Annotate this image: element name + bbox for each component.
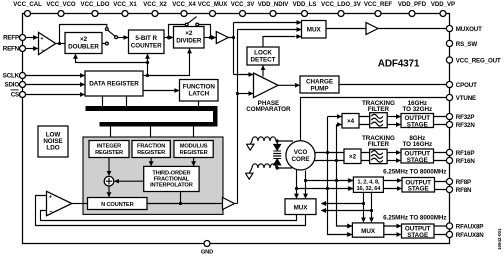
- node divider bypass split junction: [167, 36, 170, 39]
- svg-text:SDIO: SDIO: [4, 82, 19, 89]
- left pin CS (active low, overline): [11, 90, 26, 99]
- wire phase comparator to charge pump: [278, 84, 299, 86]
- oscillator VCO CORE: [286, 141, 315, 170]
- op-amp PHASE COMPARATOR: [254, 73, 279, 98]
- op-amp feedback buffer: [47, 191, 72, 215]
- filter block tracking filter row2: [370, 149, 388, 163]
- svg-text:−: −: [49, 209, 53, 215]
- node VCO lower output tap: [335, 159, 338, 162]
- charge pump block CHARGE PUMP: [300, 76, 339, 93]
- top power pin circles: [25, 11, 447, 17]
- doubler block x2 DOUBLER: [65, 33, 102, 54]
- wire buffer output to doubler: [56, 43, 65, 45]
- wire lock detect output to MUX input 3: [263, 37, 296, 48]
- regulator block LOW NOISE LDO: [38, 126, 68, 157]
- buffer triangle MUXOUT driver: [366, 23, 378, 35]
- amplifier block OUTPUT STAGE row2: [401, 149, 434, 164]
- bottom pin GND: [201, 241, 213, 256]
- svg-text:LATCH: LATCH: [188, 91, 209, 98]
- wire VTUNE pin to VCO core: [301, 98, 447, 142]
- svg-text:MODULUS: MODULUS: [180, 144, 208, 150]
- counter block 5-BIT R COUNTER: [129, 30, 165, 54]
- wire fraction register to interpolator: [150, 158, 152, 166]
- svg-text:VTUNE: VTUNE: [456, 95, 476, 102]
- buffer triangle N divider output: [223, 198, 235, 210]
- amplifier block OUTPUT STAGE row3: [402, 178, 435, 193]
- svg-text:REGISTER: REGISTER: [180, 150, 208, 156]
- node reference buffer output junction: [232, 36, 235, 39]
- node VCO upper output tap: [326, 151, 329, 154]
- svg-text:RFAUX8N: RFAUX8N: [456, 232, 485, 239]
- svg-text:DATA REGISTER: DATA REGISTER: [89, 81, 139, 88]
- wire modulus register to interpolator: [193, 158, 195, 166]
- svg-text:VCC_REG_OUT: VCC_REG_OUT: [456, 57, 501, 64]
- lock detect block LOCK DETECT: [247, 47, 279, 65]
- svg-text:TO 16GHz: TO 16GHz: [403, 141, 433, 148]
- divider block 1 2 4 8 16 32 64: [353, 177, 383, 192]
- summer node circle plus: [104, 176, 114, 186]
- svg-text:STAGE: STAGE: [408, 186, 429, 193]
- svg-text:×2: ×2: [349, 154, 357, 161]
- svg-text:SCLK: SCLK: [3, 73, 20, 80]
- wire divider bypass up and over: [169, 25, 186, 38]
- wire VCO net verticals feeding x4 and aux mux: [328, 117, 352, 235]
- wire to MUXOUT pin: [378, 28, 446, 30]
- wire VCO bottom pair to feedback mux: [297, 170, 306, 194]
- svg-text:CORE: CORE: [292, 156, 310, 163]
- right pin RFAUX8P: [446, 223, 483, 230]
- right pin VTUNE: [446, 94, 476, 101]
- svg-text:RF16P: RF16P: [456, 150, 475, 157]
- svg-text:MUX: MUX: [307, 27, 322, 34]
- svg-text:FRACTION: FRACTION: [137, 144, 165, 150]
- wire N buffer to feedback vertical: [235, 203, 238, 205]
- amplifier block OUTPUT STAGE row1: [401, 114, 434, 129]
- amplifier block OUTPUT STAGE row4: [402, 224, 435, 239]
- switch SW1 reference doubler select: [105, 28, 117, 45]
- svg-text:MUXOUT: MUXOUT: [456, 26, 482, 33]
- wire divider bypass rejoin: [199, 25, 211, 38]
- svg-text:DETECT: DETECT: [251, 57, 276, 64]
- wire RF divider outputs to output stage row3: [383, 180, 401, 182]
- svg-text:STAGE: STAGE: [407, 157, 428, 164]
- counter block N COUNTER: [88, 198, 148, 210]
- wire feedback plus input from mux: [36, 196, 306, 226]
- svg-text:FUNCTION: FUNCTION: [183, 84, 216, 91]
- svg-text:VCC_LDO: VCC_LDO: [81, 2, 110, 8]
- right pin RF16N: [446, 157, 475, 164]
- svg-text:VCC_REF: VCC_REF: [364, 2, 393, 8]
- svg-text:INTERPOLATOR: INTERPOLATOR: [150, 182, 193, 188]
- wire output stage row4 to RFAUX8 pins: [434, 226, 446, 235]
- wire tank to VCO core: [276, 141, 293, 168]
- svg-text:RF8P: RF8P: [456, 179, 471, 186]
- right pin VCC_REG_OUT: [446, 57, 501, 64]
- ground port symbol upper: [246, 141, 254, 150]
- svg-text:N COUNTER: N COUNTER: [101, 202, 134, 208]
- right pin RF32P: [446, 113, 474, 120]
- svg-text:16, 32, 64: 16, 32, 64: [356, 186, 381, 192]
- node divider bypass rejoin junction: [209, 36, 212, 39]
- svg-text:RF32N: RF32N: [456, 122, 476, 129]
- svg-text:ADF4371: ADF4371: [378, 59, 420, 70]
- svg-text:GND: GND: [201, 250, 213, 256]
- wire feedback minus input from mux: [41, 211, 297, 221]
- varactor diode D1: [273, 144, 281, 151]
- wire output stage row2 to RF16 pins: [434, 153, 447, 161]
- node doubler feed junction: [146, 61, 149, 64]
- svg-text:CPOUT: CPOUT: [456, 82, 477, 89]
- svg-text:VCC_X2: VCC_X2: [143, 2, 167, 8]
- svg-text:5-BIT R: 5-BIT R: [135, 35, 157, 42]
- mux block RFAUX8 MUX: [352, 223, 383, 237]
- right pin CPOUT: [446, 81, 477, 88]
- svg-text:VCC_X4: VCC_X4: [172, 2, 196, 8]
- wire MUX to MUXOUT buffer: [326, 28, 366, 30]
- svg-text:FILTER: FILTER: [368, 106, 390, 113]
- node divider input tap lower: [295, 187, 298, 190]
- node tank junction lower: [276, 166, 279, 169]
- wire N divider feedback net vertical, to phase comparator and MUX input 2: [238, 30, 302, 204]
- interpolator block THIRD-ORDER FRACTIONAL INTERPOLATOR: [144, 166, 199, 191]
- right pin RF16P: [446, 149, 474, 156]
- svg-text:VCC_LDO_3V: VCC_LDO_3V: [321, 2, 361, 8]
- svg-text:MUX: MUX: [294, 204, 309, 211]
- svg-text:INTEGER: INTEGER: [97, 144, 121, 150]
- svg-text:VDD_VP: VDD_VP: [431, 2, 455, 8]
- svg-text:STAGE: STAGE: [407, 121, 428, 128]
- multiplier block x4: [342, 114, 359, 129]
- right pin MUXOUT: [446, 25, 482, 32]
- wire aux mux to output stage row4: [384, 225, 401, 227]
- right pin RS_SW: [446, 40, 477, 47]
- mux block feedback MUX: [285, 199, 316, 215]
- switch SW2 divider bypass: [185, 17, 198, 26]
- svg-text:×2: ×2: [80, 36, 88, 43]
- register block FRACTION REGISTER: [132, 141, 170, 158]
- wire x2 to tracking filter row2: [361, 153, 369, 161]
- wire lock detect input from phase comparator: [262, 66, 264, 77]
- wire divider output to reference buffer: [204, 37, 216, 39]
- svg-text:COMPARATOR: COMPARATOR: [246, 106, 291, 113]
- svg-text:DIVIDER: DIVIDER: [176, 38, 202, 45]
- wire REFP to input buffer: [26, 37, 38, 39]
- svg-text:REFP: REFP: [3, 35, 19, 42]
- svg-text:−: −: [41, 48, 45, 54]
- svg-text:VCC_MUX: VCC_MUX: [198, 2, 228, 8]
- inductor L2 lower tank coil: [252, 164, 276, 168]
- capacitor C1 plates: [273, 154, 281, 157]
- svg-text:REGISTER: REGISTER: [137, 150, 165, 156]
- right pin RFAUX8N: [446, 231, 484, 238]
- svg-text:PUMP: PUMP: [311, 86, 329, 93]
- svg-text:VDD_NDIV: VDD_NDIV: [258, 2, 289, 8]
- left pin REFN: [3, 46, 26, 53]
- wire data register to function latch: [143, 90, 179, 92]
- svg-text:VDD_LS: VDD_LS: [293, 2, 317, 8]
- svg-text:VCC_X1: VCC_X1: [113, 2, 137, 8]
- wire integer register to summer: [108, 158, 110, 176]
- node divider input tap upper: [304, 179, 307, 182]
- register block DATA REGISTER: [85, 71, 143, 96]
- svg-text:VDD_PFD: VDD_PFD: [398, 2, 427, 8]
- ground port symbol lower: [245, 168, 253, 179]
- left pin REFP: [3, 35, 25, 42]
- varactor diode D2: [273, 159, 281, 165]
- svg-text:16942-001: 16942-001: [497, 228, 502, 250]
- svg-text:+: +: [40, 36, 43, 42]
- multiplier block x2: [344, 149, 361, 164]
- wire summer to N counter: [108, 186, 110, 197]
- wire REFN to input buffer: [26, 48, 38, 50]
- svg-text:VCC_VCO: VCC_VCO: [46, 2, 76, 8]
- svg-text:FILTER: FILTER: [368, 141, 390, 148]
- node control wire junction: [146, 74, 149, 77]
- wire data register to doubler, R counter and divider controls: [76, 49, 190, 76]
- wire SDIO to data register: [26, 84, 84, 86]
- svg-text:DOUBLER: DOUBLER: [68, 44, 99, 51]
- wire bus to integer fraction modulus registers: [111, 127, 194, 141]
- node buffer output junction: [58, 42, 61, 45]
- svg-text:+: +: [49, 194, 52, 200]
- wire R counter output to x2 divider: [164, 37, 173, 39]
- wire output stage row1 to RF32 pins: [434, 117, 447, 125]
- wire filter to output stage row2: [387, 152, 400, 154]
- buffer triangle after divider: [216, 32, 228, 44]
- svg-text:STAGE: STAGE: [407, 232, 428, 239]
- wire SCLK to data register: [26, 75, 84, 77]
- svg-text:MUX: MUX: [361, 228, 376, 235]
- svg-text:REFN: REFN: [3, 46, 20, 53]
- right pin RF8P: [446, 178, 471, 185]
- svg-text:RS_SW: RS_SW: [456, 41, 478, 48]
- svg-text:VCO: VCO: [294, 149, 308, 156]
- op-amp reference input buffer: [39, 32, 56, 54]
- wire RF divider bottom outputs down to both muxes: [322, 192, 372, 217]
- svg-text:LOCK: LOCK: [254, 50, 272, 57]
- mux block MUXOUT source MUX: [302, 21, 327, 39]
- wire output stage row3 to RF8 pins: [435, 182, 447, 190]
- chip boundary ADF4371: [23, 14, 450, 244]
- svg-text:6.25MHz TO 8000MHz: 6.25MHz TO 8000MHz: [383, 169, 446, 176]
- svg-text:RF32P: RF32P: [456, 114, 475, 121]
- latch block FUNCTION LATCH: [180, 80, 219, 102]
- wire register and latch to data bus: [103, 96, 199, 106]
- wire x4 to tracking filter row1: [359, 117, 369, 125]
- svg-text:×2: ×2: [185, 30, 193, 37]
- top power pin labels: [13, 2, 455, 8]
- wire doubler bypass over the top: [60, 25, 107, 44]
- wire N counter output to buffer and interpolator clock: [147, 192, 223, 204]
- svg-text:REGISTER: REGISTER: [95, 150, 123, 156]
- bus thick program data bus: [86, 106, 218, 127]
- left pin SDIO: [4, 82, 25, 89]
- node divider output to feedback mux junction lower: [370, 209, 373, 212]
- right pin RF32N: [446, 121, 475, 128]
- svg-text:RF16N: RF16N: [456, 158, 476, 165]
- svg-text:VCC_CAL: VCC_CAL: [13, 2, 42, 8]
- sigma-delta engine gray box: [83, 137, 223, 214]
- node interpolator clock junction: [179, 202, 182, 205]
- wire charge pump to CPOUT pin: [339, 84, 446, 86]
- node phase comparator N input junction: [236, 92, 239, 95]
- wire CS to data register: [26, 94, 84, 96]
- left pin SCLK: [3, 73, 26, 80]
- svg-text:TO 32GHz: TO 32GHz: [403, 106, 433, 113]
- wire VCO taps to RF divider inputs: [297, 181, 353, 189]
- wire reference net to phase comparator plus MUX input 1: [228, 23, 301, 75]
- svg-text:CS: CS: [11, 92, 19, 99]
- svg-text:CHARGE: CHARGE: [306, 79, 333, 86]
- node tank junction upper: [276, 139, 279, 142]
- inductor L1 upper tank coil: [252, 137, 276, 141]
- divider block x2 DIVIDER: [174, 27, 205, 49]
- node divider output to feedback mux junction upper: [362, 202, 365, 205]
- wire feedback buffer output to N counter: [72, 203, 88, 205]
- wire filter to output stage row1: [387, 116, 400, 118]
- svg-text:1, 2, 4, 8,: 1, 2, 4, 8,: [357, 180, 380, 186]
- right pin RF8N: [446, 186, 472, 193]
- wire VCO differential outputs to x2 multiplier: [314, 153, 344, 161]
- filter block tracking filter row1: [370, 113, 388, 128]
- svg-text:RFAUX8P: RFAUX8P: [456, 223, 484, 230]
- register block MODULUS REGISTER: [174, 141, 213, 158]
- svg-text:×4: ×4: [347, 118, 355, 125]
- wire interpolator to summer: [115, 180, 144, 182]
- svg-text:VCC_3V: VCC_3V: [231, 2, 255, 8]
- svg-text:LDO: LDO: [46, 145, 59, 152]
- register block INTEGER REGISTER: [89, 141, 129, 158]
- svg-text:RF8N: RF8N: [456, 187, 472, 194]
- svg-text:COUNTER: COUNTER: [131, 43, 162, 50]
- wire doubler output stub to switch throw: [102, 42, 105, 44]
- wire switch pole to R counter: [118, 37, 128, 39]
- svg-text:6.25MHz TO 8000MHz: 6.25MHz TO 8000MHz: [383, 215, 446, 222]
